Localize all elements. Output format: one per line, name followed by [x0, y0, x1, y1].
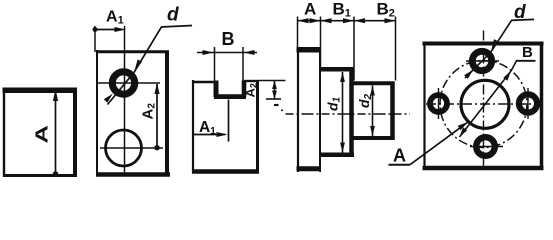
view 4 dimension line A B1 B2 — [298, 18, 396, 23]
view 3 stray dot — [281, 109, 283, 111]
svg-text:A: A — [304, 0, 316, 19]
view 5 dimension d leader and arrows — [464, 20, 511, 79]
svg-text:A1: A1 — [199, 119, 216, 137]
view 3: notched block outline — [192, 80, 259, 173]
view 5 left hole crosshair — [438, 88, 440, 119]
view 5 horizontal center line — [426, 103, 541, 105]
view 5 bolt circle (dash-dot) — [440, 61, 527, 148]
view 5 label B underline — [516, 60, 536, 62]
view 4 step 3 — [354, 82, 395, 141]
view 3 dimension A2 — [259, 81, 286, 100]
view 5 right hole — [519, 94, 537, 112]
view 3 slot left wall — [214, 81, 219, 98]
view 5 label A underline — [389, 164, 411, 166]
svg-text:B: B — [522, 44, 533, 61]
svg-text:d2: d2 — [356, 93, 374, 108]
view 3 dimension A1 — [194, 100, 229, 142]
view 2 top hole crosshair — [98, 82, 160, 84]
view 4 dimension d1 — [340, 72, 345, 153]
view 4 flange — [297, 48, 322, 172]
svg-text:A1: A1 — [106, 9, 124, 27]
view 5 label d underline — [511, 19, 534, 20]
view 2 dimension A2 — [154, 83, 159, 150]
view 2 bottom hole — [106, 130, 142, 166]
view 5 central hole — [461, 80, 509, 128]
view 2 bottom hole crosshair — [100, 147, 163, 149]
view 5: plate outline — [423, 42, 544, 171]
view 5 bottom hole crosshair — [470, 146, 503, 148]
view 5 leader A to central hole — [410, 122, 468, 165]
view 5 top hole — [472, 51, 491, 70]
view 5 bottom hole — [476, 137, 495, 156]
view 3 stray dash — [274, 104, 279, 106]
view 2 vertical center line — [124, 26, 126, 173]
svg-text:A: A — [32, 125, 52, 144]
view 3 slot bottom — [214, 94, 246, 99]
svg-text:B2: B2 — [377, 0, 395, 20]
svg-text:d: d — [514, 2, 526, 23]
view 2 dimension d leader and arrows — [104, 27, 162, 105]
view 2: plate outline — [96, 50, 170, 176]
view 5 left hole — [430, 95, 447, 112]
svg-text:A: A — [393, 146, 406, 166]
svg-text:B: B — [222, 29, 235, 49]
view 4 step 2 — [320, 68, 354, 158]
view 2 top hole (thick ring) — [112, 72, 134, 94]
view 3 dimension B — [197, 47, 257, 81]
view 4 dimension d2 — [370, 86, 375, 137]
svg-text:B1: B1 — [333, 0, 351, 20]
view 5 right hole crosshair — [527, 88, 529, 119]
view 5 vertical center line — [483, 31, 485, 168]
svg-text:d: d — [167, 5, 179, 26]
view 4 center line — [286, 113, 411, 115]
view 4 extension lines — [298, 17, 396, 81]
svg-text:A2: A2 — [140, 103, 158, 120]
view 5 top hole crosshair — [466, 60, 499, 62]
svg-text:d1: d1 — [325, 96, 343, 111]
view 3 slot right wall — [242, 81, 247, 98]
view 1: plain block outline — [3, 88, 78, 177]
view 2 label d underline — [161, 26, 192, 28]
view 2 dimension A1 — [93, 26, 127, 52]
view 5 dimension B line with arrows — [460, 61, 517, 137]
view 1 dimension A arrow — [53, 89, 59, 177]
